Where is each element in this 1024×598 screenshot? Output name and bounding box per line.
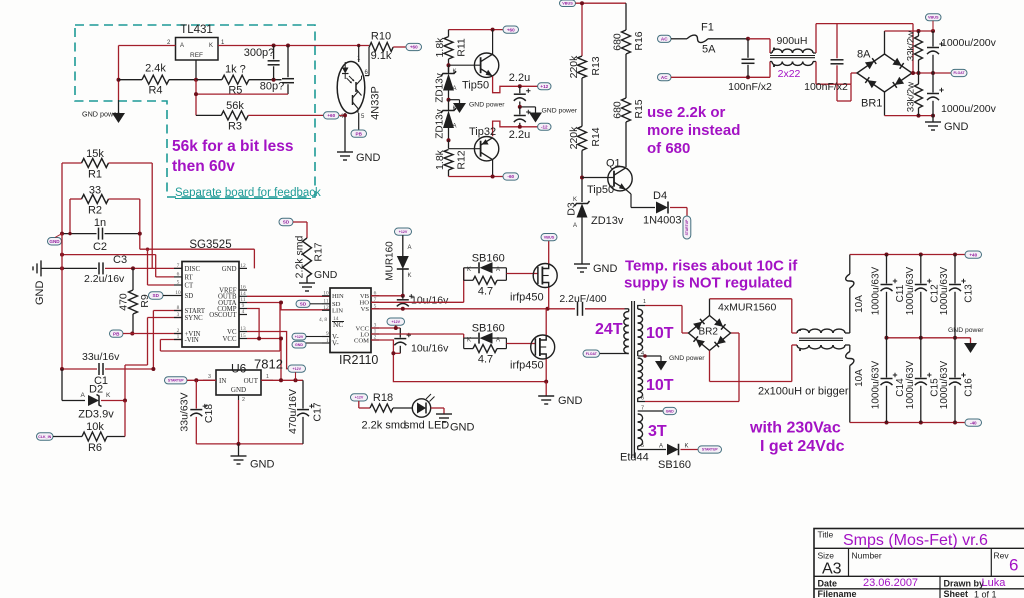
svg-text:1000u/63V: 1000u/63V xyxy=(939,266,950,315)
junction top rail a xyxy=(885,253,889,257)
junction opto +60 xyxy=(343,113,347,117)
svg-text:33: 33 xyxy=(89,185,101,197)
svg-text:900uH: 900uH xyxy=(777,35,808,47)
wire R5 wires xyxy=(196,79,282,81)
svg-text:ZD13v: ZD13v xyxy=(435,73,446,102)
wire BR2 plus rail xyxy=(710,299,798,333)
svg-text:ZD3.9v: ZD3.9v xyxy=(78,409,114,421)
svg-text:SB160: SB160 xyxy=(472,253,505,265)
svg-text:Drawn by: Drawn by xyxy=(944,579,985,589)
svg-text:1000u/200v: 1000u/200v xyxy=(941,103,997,115)
node +12V label (VCC) xyxy=(387,318,405,325)
wire COM return xyxy=(371,340,546,382)
node FLOAT label (primary) xyxy=(583,350,600,357)
svg-text:A: A xyxy=(496,267,500,273)
svg-text:7: 7 xyxy=(641,406,644,412)
wire +VIN row xyxy=(123,333,182,335)
junction R4 left xyxy=(117,78,121,82)
svg-text:GND: GND xyxy=(231,386,246,394)
svg-text:CLK_IN: CLK_IN xyxy=(38,435,51,439)
node VBUS label (top) xyxy=(560,0,576,7)
wire R2 left drop xyxy=(69,199,71,234)
junction top rail b xyxy=(919,253,923,257)
capacitor 300p? xyxy=(244,46,280,80)
node FLOAT label (input) xyxy=(951,69,967,76)
wire C2 to SG3525 GND xyxy=(140,249,255,268)
svg-text:470: 470 xyxy=(118,293,130,311)
svg-text:REF: REF xyxy=(190,52,203,59)
junction R2 drop xyxy=(68,232,71,235)
winding primary 24T xyxy=(595,309,629,354)
svg-text:R14: R14 xyxy=(590,127,602,146)
svg-text:Number: Number xyxy=(852,551,882,561)
svg-text:Q1: Q1 xyxy=(606,158,621,170)
svg-text:14: 14 xyxy=(333,316,339,322)
svg-text:9: 9 xyxy=(326,331,329,337)
svg-text:D4: D4 xyxy=(653,190,667,202)
annotation 56k note xyxy=(172,138,293,175)
resistor R11 1.8k xyxy=(434,30,468,59)
node AC label 1 xyxy=(658,35,672,42)
svg-text:56k for a bit less: 56k for a bit less xyxy=(172,138,293,155)
wire CT riser xyxy=(148,249,175,285)
svg-text:OSCOUT: OSCOUT xyxy=(209,312,237,319)
junction bottom rail b xyxy=(931,114,935,118)
svg-text:9.1k: 9.1k xyxy=(371,50,392,62)
svg-text:2.2u: 2.2u xyxy=(509,129,530,141)
wire output top rail xyxy=(850,254,970,256)
svg-text:+12V: +12V xyxy=(295,335,304,339)
svg-text:suppy is NOT regulated: suppy is NOT regulated xyxy=(624,275,792,292)
node PB label (opto) xyxy=(351,130,367,137)
svg-text:Tip32: Tip32 xyxy=(469,126,496,138)
svg-text:C18: C18 xyxy=(203,404,215,423)
transistor M2 irfp450 xyxy=(510,335,555,372)
svg-text:33k/2w: 33k/2w xyxy=(906,31,917,61)
wire -12 rail xyxy=(493,121,538,136)
svg-text:-60: -60 xyxy=(507,174,514,179)
ground GND (C3) xyxy=(33,260,46,305)
svg-text:4N33P: 4N33P xyxy=(370,86,382,120)
junction mid rail c xyxy=(931,71,935,75)
svg-text:7812: 7812 xyxy=(254,357,283,372)
node +40 label xyxy=(965,251,982,258)
svg-text:K: K xyxy=(467,267,471,273)
annotation temp rises xyxy=(624,258,798,292)
junction bot rail c xyxy=(953,421,957,425)
svg-text:K: K xyxy=(467,337,471,343)
svg-text:10k: 10k xyxy=(86,421,104,433)
svg-text:FLOAT: FLOAT xyxy=(953,71,965,75)
svg-text:10T: 10T xyxy=(646,325,674,342)
capacitor 2.2uF/400 xyxy=(559,293,624,316)
wire SYNC riser xyxy=(125,318,182,401)
capacitor C12 1000u/63V xyxy=(905,255,941,338)
svg-text:A: A xyxy=(659,444,663,450)
svg-text:A: A xyxy=(81,392,86,399)
resistor R5 xyxy=(222,64,249,97)
svg-text:VC: VC xyxy=(227,329,237,336)
node +60 label inline xyxy=(324,112,346,119)
junction bot rail b xyxy=(919,421,923,425)
svg-text:+12: +12 xyxy=(540,84,548,89)
svg-text:VBUS: VBUS xyxy=(562,2,573,6)
junction center tap xyxy=(643,354,647,358)
svg-text:C17: C17 xyxy=(312,402,324,421)
svg-text:R11: R11 xyxy=(456,38,468,57)
resistor R2 xyxy=(82,185,109,217)
junction 300p bottom xyxy=(272,78,276,82)
svg-text:-VIN: -VIN xyxy=(185,337,199,344)
svg-text:2x100uH or bigger: 2x100uH or bigger xyxy=(758,386,849,398)
svg-text:1n: 1n xyxy=(94,217,106,229)
svg-text:irfp450: irfp450 xyxy=(510,292,544,304)
svg-text:16: 16 xyxy=(240,285,246,291)
svg-text:10: 10 xyxy=(175,290,181,296)
winding auxiliary 3T xyxy=(638,406,667,450)
wire 3T bottom xyxy=(638,444,666,450)
svg-text:GND: GND xyxy=(944,121,969,133)
wire Tip50 base xyxy=(449,64,481,66)
op-amp U6 7812 xyxy=(203,357,283,404)
svg-text:Luka: Luka xyxy=(982,577,1007,589)
wire VS switch node xyxy=(371,308,575,310)
junction top rail c xyxy=(953,253,957,257)
svg-text:SD: SD xyxy=(153,293,160,298)
wire M1 source xyxy=(548,288,550,309)
wire sec2 to BR2 xyxy=(645,333,739,402)
wire R14 to D3 xyxy=(581,150,583,202)
svg-text:FLOAT: FLOAT xyxy=(586,352,598,356)
svg-text:1 of 1: 1 of 1 xyxy=(974,590,997,598)
junction VS a xyxy=(401,307,405,311)
svg-text:2x22: 2x22 xyxy=(778,68,801,80)
node +12V label (IR2110 V-) xyxy=(292,333,322,340)
svg-text:K: K xyxy=(209,43,213,49)
svg-text:680: 680 xyxy=(612,33,624,51)
annotation Etd44 xyxy=(620,452,649,464)
svg-text:+60: +60 xyxy=(507,27,515,32)
svg-text:1: 1 xyxy=(643,299,646,305)
svg-text:3: 3 xyxy=(177,312,180,318)
diode D8 SB160 (startup) xyxy=(658,444,698,472)
annotation use 2.2k note xyxy=(647,104,740,157)
wire R2 leads xyxy=(70,198,140,200)
svg-text:LIN: LIN xyxy=(332,308,343,315)
op-amp U4 IR2110 xyxy=(319,288,379,367)
capacitor 2.2u lower xyxy=(509,107,531,141)
junction opto pin1 xyxy=(357,44,360,47)
ground GND power (feedback) xyxy=(82,110,125,124)
wire R2 right drop xyxy=(139,199,141,249)
junction Tip50 base xyxy=(447,63,451,67)
wire R3 left xyxy=(196,114,221,116)
junction driver mid xyxy=(518,105,522,109)
ground GND power (center tap) xyxy=(655,355,705,371)
svg-text:TL431: TL431 xyxy=(180,24,213,36)
wire opto pin5 xyxy=(358,113,360,130)
inductor output choke 2x100uH xyxy=(758,329,849,398)
resistor bleeder 33k/2w upper xyxy=(906,31,923,73)
fuse output 10A lower xyxy=(845,345,865,423)
svg-text:K: K xyxy=(453,106,457,112)
junction -12 rail xyxy=(518,125,522,129)
wire BR1 bottom xyxy=(885,92,934,116)
svg-text:1000u/63V: 1000u/63V xyxy=(905,360,916,409)
svg-text:STARTUP: STARTUP xyxy=(168,379,184,383)
svg-text:6: 6 xyxy=(177,271,180,277)
junction D2 K xyxy=(123,399,127,403)
capacitor 1000u/200v upper xyxy=(927,31,997,73)
junction M2 source xyxy=(544,380,548,384)
svg-text:A: A xyxy=(496,337,500,343)
ground GND (half-bridge) xyxy=(538,382,582,407)
junction zener mid xyxy=(447,98,451,102)
node GND label (IR2110 V-) xyxy=(292,341,322,348)
wire D4 to STARTUP xyxy=(686,208,688,217)
svg-text:80p?: 80p? xyxy=(260,81,284,93)
svg-text:Title: Title xyxy=(818,530,834,540)
svg-text:2.2u/16v: 2.2u/16v xyxy=(84,273,125,285)
svg-text:14: 14 xyxy=(240,291,246,297)
svg-text:irfp450: irfp450 xyxy=(510,360,544,372)
svg-text:VCC: VCC xyxy=(223,336,237,343)
wire Tip32 base xyxy=(449,140,481,149)
node CLK_IN label xyxy=(37,433,54,440)
diode D7 SB160 lower xyxy=(464,323,507,344)
capacitor C16 1000u/63V xyxy=(939,338,975,423)
wire Q1 base xyxy=(582,177,614,179)
svg-text:33k/2w: 33k/2w xyxy=(906,82,917,112)
op-amp U2 SG3525 xyxy=(174,239,247,347)
svg-text:R10: R10 xyxy=(371,31,391,43)
diode D6 SB160 upper xyxy=(464,253,507,274)
svg-text:GND: GND xyxy=(222,266,237,273)
svg-text:220k: 220k xyxy=(568,126,580,150)
wire +60 rail (driver) xyxy=(449,29,504,31)
junction 80p row xyxy=(194,92,198,96)
svg-text:A: A xyxy=(408,245,412,251)
wire aux feedback row xyxy=(62,255,174,277)
junction VS b xyxy=(546,307,550,311)
svg-text:4xMUR1560: 4xMUR1560 xyxy=(718,302,777,314)
junction C1 left xyxy=(60,367,64,371)
svg-text:SB160: SB160 xyxy=(658,459,691,471)
wire COMP loop xyxy=(247,309,259,339)
junction C1 right xyxy=(151,367,155,371)
svg-text:K: K xyxy=(106,392,111,399)
capacitor 2.2u upper xyxy=(509,72,531,107)
node STARTUP label (D4) xyxy=(683,216,691,239)
svg-text:SD: SD xyxy=(283,220,290,225)
svg-text:with 230Vac: with 230Vac xyxy=(749,420,841,437)
junction 300p top xyxy=(272,44,276,48)
junction C2 right xyxy=(138,232,142,236)
svg-text:56k: 56k xyxy=(226,100,244,112)
svg-text:4: 4 xyxy=(242,309,245,315)
ground GND power (output) xyxy=(948,327,984,353)
node +12V label (R18) xyxy=(351,394,368,401)
svg-text:GND: GND xyxy=(666,409,674,413)
diode D3 ZD13v xyxy=(566,197,624,264)
capacitor C14 1000u/63V xyxy=(871,338,907,423)
svg-text:1000u/63V: 1000u/63V xyxy=(939,360,950,409)
junction mid rail b xyxy=(917,71,921,75)
svg-text:Filename: Filename xyxy=(818,589,857,598)
junction BR1 rail a xyxy=(917,29,921,33)
capacitor 100nF/x2 second xyxy=(804,24,851,101)
svg-text:C3: C3 xyxy=(113,254,127,266)
optocoupler U3 4N33P xyxy=(337,56,381,120)
wire R1 leads xyxy=(62,162,152,164)
wire OUTA to LIN xyxy=(247,303,330,310)
svg-text:R17: R17 xyxy=(313,242,325,261)
junction COM a xyxy=(391,351,395,355)
capacitor C3 xyxy=(41,254,182,285)
wire BR1 top to VBUS rail xyxy=(885,31,934,54)
svg-text:I get 24Vdc: I get 24Vdc xyxy=(760,438,845,455)
node GND label small xyxy=(48,234,63,245)
svg-text:IN: IN xyxy=(219,377,226,385)
svg-text:1.8k: 1.8k xyxy=(434,149,446,170)
svg-text:R16: R16 xyxy=(633,31,645,50)
svg-text:GND power: GND power xyxy=(82,110,120,119)
svg-text:1: 1 xyxy=(177,334,180,340)
wire AC2 to choke xyxy=(671,62,770,78)
svg-text:11: 11 xyxy=(323,298,328,304)
svg-text:R4: R4 xyxy=(148,85,162,97)
capacitor C11 1000u/63V xyxy=(871,255,907,338)
junction mid rail d xyxy=(885,336,889,340)
svg-text:5A: 5A xyxy=(702,44,716,56)
svg-text:BR1: BR1 xyxy=(861,98,882,110)
node SD label (SG3525) xyxy=(149,292,175,299)
node AC label 2 xyxy=(658,74,672,81)
svg-text:V-: V- xyxy=(332,340,339,348)
node +60 label (driver) xyxy=(503,26,519,33)
junction VCC b xyxy=(279,337,283,341)
svg-text:GND: GND xyxy=(314,269,338,281)
svg-text:A3: A3 xyxy=(822,561,842,578)
junction Q1 base xyxy=(580,176,584,180)
wire R10 to +60 xyxy=(393,46,406,48)
inductor 900uH common-mode choke xyxy=(770,35,815,80)
wire HO to gate network xyxy=(371,268,464,303)
svg-text:100nF/x2: 100nF/x2 xyxy=(804,81,848,93)
resistor R1 xyxy=(82,148,109,181)
wire VC to +12V xyxy=(247,332,289,369)
svg-text:GND: GND xyxy=(34,281,46,306)
wire VCC rail xyxy=(247,339,281,381)
svg-text:R1: R1 xyxy=(88,169,102,181)
junction R9 bottom xyxy=(130,332,134,336)
diode ZD13v lower xyxy=(435,100,457,141)
fuse output 10A upper xyxy=(845,255,865,334)
junction VCC pin xyxy=(394,326,398,330)
capacitor C13 1000u/63V xyxy=(939,255,975,338)
node +12V label (MUR160) xyxy=(395,228,412,235)
junction cap1 bottom xyxy=(746,75,750,79)
wire Tip50 collector xyxy=(492,30,494,55)
svg-text:12: 12 xyxy=(240,263,246,269)
junction aux row xyxy=(60,253,64,257)
svg-text:A: A xyxy=(180,43,184,49)
svg-text:A: A xyxy=(453,124,457,130)
ground GND (LED) xyxy=(436,414,475,434)
rectifier BR2 4xMUR1560 xyxy=(689,302,777,351)
svg-text:Tip50: Tip50 xyxy=(462,80,489,92)
diode D4 1N4003 xyxy=(643,190,687,227)
svg-text:+60: +60 xyxy=(327,113,335,118)
svg-text:A: A xyxy=(573,223,577,229)
svg-text:1k ?: 1k ? xyxy=(225,64,246,76)
junction C3 left xyxy=(60,266,64,270)
resistor R12 1.8k xyxy=(434,149,468,176)
junction mid rail f xyxy=(953,336,957,340)
capacitor 100nF/x2 first xyxy=(728,39,772,93)
svg-text:GND: GND xyxy=(49,239,60,244)
transistor M1 irfp450 xyxy=(510,264,557,304)
svg-text:DISC: DISC xyxy=(185,266,201,273)
wire R1 left bus xyxy=(61,163,63,234)
svg-text:10A: 10A xyxy=(854,369,865,387)
junction VBUS rail xyxy=(580,1,584,5)
wire output mid rail xyxy=(887,337,971,339)
svg-text:VS: VS xyxy=(361,306,370,313)
svg-text:+12V: +12V xyxy=(392,320,401,324)
svg-text:R2: R2 xyxy=(88,205,102,217)
svg-text:R3: R3 xyxy=(228,120,242,132)
wire R16-R15 xyxy=(625,54,627,98)
resistor R17 2.2k smd xyxy=(279,218,325,283)
svg-text:1000u/63V: 1000u/63V xyxy=(871,360,882,409)
resistor R4 xyxy=(142,63,169,97)
wire output bottom rail xyxy=(850,422,970,424)
ground GND power (driver caps) xyxy=(529,107,578,123)
capacitor 1000u/200v lower xyxy=(927,73,997,116)
wire OUTB to HIN xyxy=(247,295,330,297)
svg-text:use 2.2k or: use 2.2k or xyxy=(647,104,726,121)
winding secondary 10T upper xyxy=(638,299,674,351)
ground GND (U6) xyxy=(231,444,275,471)
ground GND (input) xyxy=(925,116,969,133)
svg-text:A: A xyxy=(453,86,457,92)
svg-text:C13: C13 xyxy=(964,284,975,303)
svg-text:RT: RT xyxy=(185,274,194,281)
svg-text:13: 13 xyxy=(240,326,246,332)
svg-text:SG3525: SG3525 xyxy=(189,239,231,251)
svg-text:START: START xyxy=(185,308,206,315)
svg-text:SYNC: SYNC xyxy=(185,315,204,322)
svg-text:GND: GND xyxy=(295,343,303,347)
svg-text:R18: R18 xyxy=(373,392,393,404)
svg-text:U6: U6 xyxy=(231,362,247,376)
resistor R10 9.1k xyxy=(369,31,393,63)
diode D2 ZD3.9v xyxy=(62,369,125,421)
wire U6 GND down xyxy=(238,400,240,444)
junction OUT b xyxy=(294,378,298,382)
node STARTUP label (3T) xyxy=(698,446,722,453)
svg-text:15: 15 xyxy=(240,333,246,339)
junction CT riser top xyxy=(146,248,149,251)
wire R4 to REF node xyxy=(119,79,197,81)
svg-text:300p?: 300p? xyxy=(244,47,275,59)
svg-text:R12: R12 xyxy=(456,150,468,169)
wire START riser xyxy=(153,311,182,370)
svg-text:6: 6 xyxy=(1009,556,1018,575)
wire Q1 emitter xyxy=(626,190,655,208)
svg-text:Smps (Mos-Fet) vr.6: Smps (Mos-Fet) vr.6 xyxy=(843,532,988,549)
